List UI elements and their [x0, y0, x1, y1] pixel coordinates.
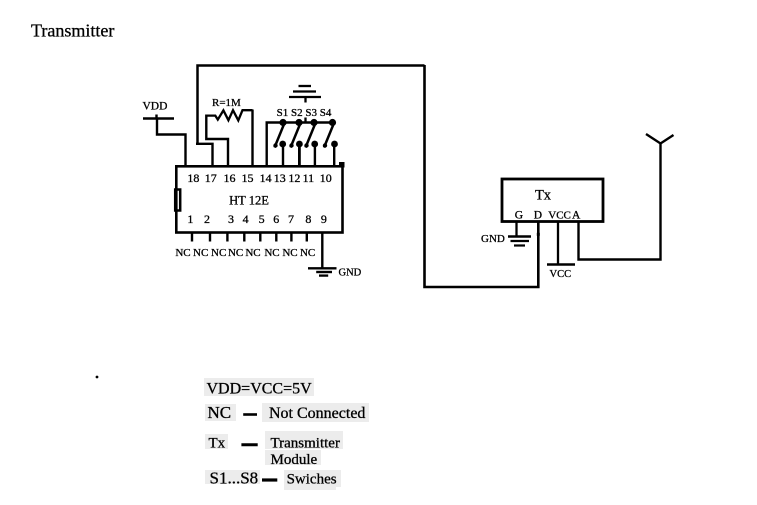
wire rail right drop to node D [425, 65, 539, 287]
svg-text:16: 16 [224, 171, 236, 185]
svg-text:Tx: Tx [535, 187, 552, 203]
ground symbol below pin 9 [308, 268, 337, 275]
power VCC rail symbol [547, 263, 575, 265]
svg-text:5: 5 [259, 212, 265, 226]
svg-text:NC: NC [282, 247, 297, 259]
legend period dot [96, 376, 99, 379]
svg-text:VCC: VCC [550, 269, 572, 280]
svg-text:NC: NC [245, 247, 260, 259]
svg-text:VCC: VCC [548, 209, 571, 221]
svg-text:17: 17 [205, 171, 217, 185]
svg-text:NC: NC [264, 247, 279, 259]
svg-text:A: A [572, 209, 581, 221]
wire VDD to pin18 [157, 118, 186, 165]
switch S2 [289, 119, 303, 165]
svg-text:Not Connected: Not Connected [269, 405, 365, 422]
svg-text:7: 7 [288, 212, 294, 226]
antenna E1 [646, 134, 674, 144]
svg-text:VDD: VDD [143, 101, 168, 113]
svg-text:14: 14 [260, 171, 272, 185]
svg-text:NC: NC [228, 247, 243, 259]
wire resistor left lead to pin16 [206, 115, 228, 166]
switch S4 [323, 119, 338, 165]
svg-text:NC: NC [175, 247, 190, 259]
svg-text:1: 1 [187, 212, 193, 226]
pin 8 stub [306, 232, 308, 242]
svg-text:NC: NC [211, 247, 226, 259]
legend NC dash [243, 413, 257, 416]
wire resistor right lead to pin15 [251, 110, 253, 166]
IC pin1 notch [175, 190, 180, 211]
svg-text:NC: NC [208, 403, 232, 422]
switch S1 [273, 119, 286, 165]
svg-text:NC: NC [300, 247, 315, 259]
pin 7 stub [290, 232, 292, 242]
svg-text:8: 8 [305, 212, 311, 226]
legend S dash [262, 478, 277, 481]
wire A pin to antenna [579, 144, 661, 260]
wire VCC pin down [557, 221, 559, 265]
svg-text:HT 12E: HT 12E [229, 194, 269, 208]
svg-text:Tx: Tx [209, 436, 226, 452]
node dot on D wire [537, 233, 540, 236]
pin 1 stub [191, 232, 193, 242]
pin 4 stub [243, 232, 245, 242]
svg-text:Swiches: Swiches [287, 472, 337, 488]
svg-text:NC: NC [193, 247, 208, 259]
IC U1 HT12E body [176, 166, 342, 232]
svg-text:9: 9 [321, 212, 327, 226]
svg-text:6: 6 [273, 212, 279, 226]
wire G pin to ground [515, 221, 517, 236]
wire top rail VDD bus [198, 66, 425, 144]
pin 5 stub [259, 232, 261, 242]
module U2 Tx body [502, 179, 603, 222]
svg-text:R=1M: R=1M [212, 97, 241, 109]
svg-text:Transmitter: Transmitter [271, 436, 340, 452]
svg-text:11: 11 [303, 171, 315, 185]
svg-text:2: 2 [204, 212, 210, 226]
resistor R body zigzag [206, 110, 253, 120]
wire rail to pin17 [196, 144, 213, 165]
ground symbol above switches [289, 86, 321, 123]
svg-text:GND: GND [339, 268, 362, 279]
svg-text:G: G [515, 209, 523, 221]
svg-text:Module: Module [271, 452, 318, 468]
svg-text:18: 18 [187, 171, 199, 185]
svg-text:D: D [534, 209, 542, 221]
svg-text:Transmitter: Transmitter [31, 21, 114, 41]
svg-text:15: 15 [242, 171, 254, 185]
pin 2 stub [209, 232, 211, 242]
pin 6 stub [275, 232, 277, 242]
svg-text:GND: GND [481, 233, 505, 245]
svg-text:S1 S2 S3 S4: S1 S2 S3 S4 [277, 107, 332, 119]
svg-text:3: 3 [228, 212, 234, 226]
svg-text:10: 10 [320, 171, 332, 185]
legend Tx dash [241, 443, 257, 446]
wire switch rail to pin14 [267, 123, 334, 166]
svg-text:12: 12 [288, 171, 300, 185]
svg-text:4: 4 [243, 212, 249, 226]
wire pin 9 to ground [321, 232, 323, 268]
svg-text:13: 13 [274, 171, 286, 185]
ground symbol at Tx G [508, 237, 531, 246]
pin 3 stub [226, 232, 228, 242]
svg-text:VDD=VCC=5V: VDD=VCC=5V [207, 381, 313, 398]
switch S3 [304, 119, 318, 165]
power VDD rail symbol [143, 115, 174, 119]
svg-text:S1...S8: S1...S8 [210, 469, 259, 488]
node IC top-right corner dot [339, 162, 345, 168]
